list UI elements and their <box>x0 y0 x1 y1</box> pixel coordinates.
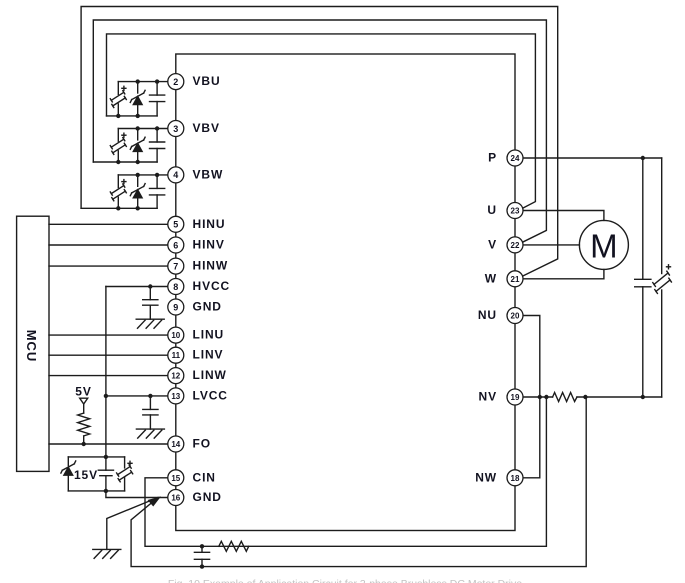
pin 24 P <box>507 150 523 166</box>
zener diode VBW clamp <box>130 175 145 208</box>
pin 9 GND <box>168 299 184 315</box>
svg-text:GND: GND <box>193 490 222 504</box>
capacitor VBU film <box>150 82 165 116</box>
node 15V box top <box>104 455 108 459</box>
node N line shunt right <box>583 395 587 399</box>
wire MCU to LINU pin10 <box>49 334 176 336</box>
resistor CIN filter <box>219 541 249 551</box>
capacitor CIN filter <box>194 546 209 566</box>
svg-text:VBW: VBW <box>193 167 224 181</box>
pin 4 VBW <box>168 167 184 183</box>
IPM body outline <box>176 54 515 531</box>
node FO pull-up <box>82 442 86 446</box>
pin 7 HINW <box>168 258 184 274</box>
svg-text:LVCC: LVCC <box>193 388 228 402</box>
svg-text:LINU: LINU <box>193 328 225 342</box>
node VBV bottom zener <box>136 160 140 164</box>
node HVCC cap tap <box>148 284 152 288</box>
node CIN filter cap top <box>200 544 204 548</box>
wire MCU to LINV pin11 <box>49 354 176 356</box>
svg-text:LINW: LINW <box>193 368 227 382</box>
wire N shunt line <box>515 396 553 398</box>
svg-text:NU: NU <box>478 308 497 322</box>
node VBU top film cap <box>155 79 159 83</box>
wire CIN pin15 sense line <box>145 397 546 546</box>
node P line film cap <box>641 156 645 160</box>
svg-text:6: 6 <box>173 240 178 250</box>
svg-text:5V: 5V <box>75 385 91 399</box>
svg-text:10: 10 <box>171 331 180 340</box>
bootstrap circuit VBV : bottom rail <box>93 161 157 163</box>
node N line film cap <box>641 395 645 399</box>
wire LVCC pin13 to 15V rail <box>106 395 176 397</box>
wire V-phase bootstrap return loop <box>93 20 546 243</box>
wire P bus to capacitors <box>515 157 662 159</box>
capacitor VBV film <box>150 129 165 163</box>
wire MCU to HINV pin6 <box>49 244 176 246</box>
wire W pin21 to motor <box>515 269 604 278</box>
svg-text:MCU: MCU <box>24 330 39 363</box>
svg-text:7: 7 <box>173 261 178 271</box>
wire top rail <box>68 456 124 458</box>
svg-text:V: V <box>488 237 497 251</box>
wire 15V rail vertical <box>105 287 107 457</box>
node VBW top film cap <box>155 173 159 177</box>
svg-text:16: 16 <box>171 494 180 503</box>
wire MCU to FO pin14 <box>49 443 176 445</box>
capacitor CBU electrolytic bootstrap <box>110 82 126 116</box>
pin 12 LINW <box>168 368 184 384</box>
node LVCC cap tap <box>148 394 152 398</box>
svg-text:HINU: HINU <box>193 217 226 231</box>
node VBU top zener <box>136 79 140 83</box>
bootstrap circuit VBW : bottom rail <box>81 207 157 209</box>
svg-text:24: 24 <box>511 154 520 163</box>
svg-text:20: 20 <box>511 312 520 321</box>
pin 2 VBU <box>168 74 184 90</box>
wire resistor to FO line <box>83 436 85 444</box>
pin 10 LINU <box>168 327 184 343</box>
pin name labels <box>193 74 498 504</box>
svg-text:NW: NW <box>475 470 497 484</box>
svg-text:P: P <box>488 151 497 165</box>
capacitor LVCC decoupling <box>143 396 158 429</box>
svg-text:CIN: CIN <box>193 470 216 484</box>
pin 23 U <box>507 203 523 219</box>
wire 15V box bottom to GND pin16 <box>106 491 176 498</box>
svg-text:HINV: HINV <box>193 238 225 252</box>
wire HVCC pin8 to 15V rail <box>106 286 176 288</box>
svg-text:FO: FO <box>193 437 211 451</box>
wire diagonal pin16 to signal ground <box>107 498 158 550</box>
ground (HVCC cap) <box>136 319 164 328</box>
zener diode 15V <box>61 457 76 491</box>
svg-text:LINV: LINV <box>193 348 224 362</box>
svg-text:13: 13 <box>171 392 180 401</box>
svg-text:9: 9 <box>173 302 178 312</box>
pin 18 NW <box>507 470 523 486</box>
node CIN filter cap bottom <box>200 564 204 568</box>
wire diagonal pin16 to power ground return <box>131 397 586 567</box>
pin 8 HVCC <box>168 279 184 295</box>
svg-text:NV: NV <box>479 390 497 404</box>
pin 5 HINU <box>168 216 184 232</box>
capacitor CBW electrolytic bootstrap <box>110 175 126 208</box>
pin 6 HINV <box>168 237 184 253</box>
svg-text:22: 22 <box>511 241 520 250</box>
capacitor DC bus electrolytic <box>653 158 672 397</box>
svg-text:M: M <box>590 228 618 265</box>
pin 22 V <box>507 237 523 253</box>
svg-text:W: W <box>485 271 497 285</box>
svg-text:14: 14 <box>171 440 180 449</box>
wire N line to bus capacitors <box>577 396 662 398</box>
svg-text:19: 19 <box>511 393 520 402</box>
pin 14 FO <box>168 436 184 452</box>
svg-text:GND: GND <box>193 300 222 314</box>
svg-text:12: 12 <box>171 372 180 381</box>
svg-text:15: 15 <box>171 474 180 483</box>
capacitor (film) 15V rail <box>98 457 113 491</box>
svg-text:VBV: VBV <box>193 121 220 135</box>
capacitor CBV electrolytic bootstrap <box>110 129 126 163</box>
node 15V rail LVCC tee <box>104 394 108 398</box>
node VBW bottom zener <box>136 206 140 210</box>
capacitor VBW film <box>150 175 165 208</box>
wire MCU to HINW pin7 <box>49 265 176 267</box>
node VBV top zener <box>136 126 140 130</box>
node VBU bottom elec cap <box>116 114 120 118</box>
capacitor HVCC decoupling <box>143 287 158 320</box>
node VBW top zener <box>136 173 140 177</box>
pin 11 LINV <box>168 347 184 363</box>
svg-text:18: 18 <box>511 474 520 483</box>
MCU block <box>17 216 49 471</box>
wire U pin23 to motor <box>515 211 604 221</box>
wire bottom rail <box>68 490 124 492</box>
wire U-phase bootstrap return loop <box>107 34 536 209</box>
bootstrap circuit VBW : top rail <box>118 174 176 176</box>
bootstrap circuit VBU : bottom rail <box>107 115 158 117</box>
capacitor DC bus film <box>635 158 651 397</box>
pin 13 LVCC <box>168 388 184 404</box>
svg-text:HINW: HINW <box>193 259 229 273</box>
pin 3 VBV <box>168 121 184 137</box>
svg-text:3: 3 <box>173 124 178 134</box>
5V supply arrow <box>80 398 88 413</box>
zener diode VBV clamp <box>130 129 145 163</box>
node VBU bottom zener <box>136 114 140 118</box>
wire V pin22 to motor <box>515 244 579 246</box>
svg-text:U: U <box>487 203 497 217</box>
svg-text:5: 5 <box>173 220 178 230</box>
ground (LVCC cap) <box>136 429 164 438</box>
svg-text:VBU: VBU <box>193 74 221 88</box>
bootstrap circuit VBV : top rail <box>118 128 176 130</box>
resistor shunt <box>553 393 577 402</box>
arrowhead at pin16 star point <box>149 498 159 506</box>
15V clamp network box <box>61 457 133 491</box>
svg-text:HVCC: HVCC <box>193 279 231 293</box>
svg-text:11: 11 <box>172 351 181 360</box>
capacitor (electrolytic) 15V rail <box>117 457 133 491</box>
motor M <box>579 220 628 269</box>
pin 21 W <box>507 271 523 287</box>
pin 19 NV <box>507 389 523 405</box>
zener diode VBU clamp <box>130 82 145 116</box>
node N line CIN sense tap <box>544 395 548 399</box>
svg-text:21: 21 <box>511 275 520 284</box>
wire MCU to LINW pin12 <box>49 375 176 377</box>
wire NU pin20 to NW pin18 tie <box>515 316 540 478</box>
node N line NU/NW riser <box>538 395 542 399</box>
wire MCU to HINU pin5 <box>49 223 176 225</box>
resistor FO pull-up <box>78 413 90 436</box>
svg-text:15V: 15V <box>74 468 98 482</box>
pin 15 CIN <box>168 470 184 486</box>
pin 20 NU <box>507 308 523 324</box>
node VBV bottom elec cap <box>116 160 120 164</box>
svg-text:23: 23 <box>511 207 520 216</box>
pin circles <box>168 74 523 506</box>
svg-text:Fig. 10 Example of Applicatio: Fig. 10 Example of Application Circuit f… <box>168 578 522 583</box>
svg-text:8: 8 <box>173 282 178 292</box>
node 15V box bottom <box>104 489 108 493</box>
wire W-phase bootstrap return loop <box>81 7 558 277</box>
bootstrap circuit VBU : top rail <box>118 81 176 83</box>
node VBV top film cap <box>155 126 159 130</box>
svg-text:4: 4 <box>173 170 178 180</box>
node VBW bottom elec cap <box>116 206 120 210</box>
svg-text:2: 2 <box>173 77 178 87</box>
ground (signal, bottom-left) <box>93 549 121 558</box>
pin 16 GND <box>168 490 184 506</box>
